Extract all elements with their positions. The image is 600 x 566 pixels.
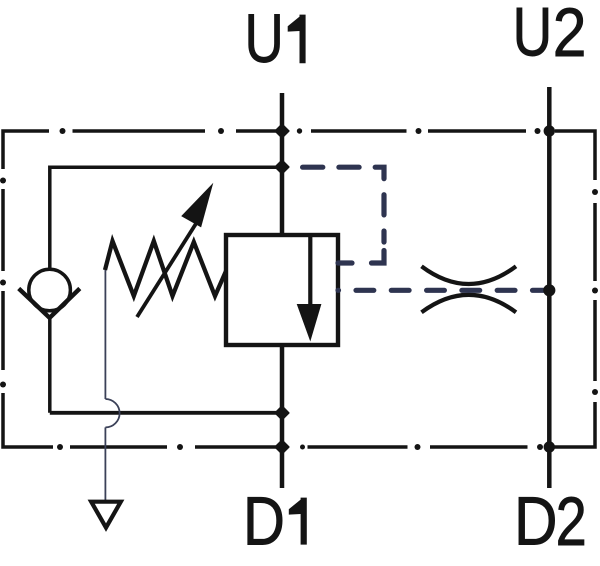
svg-text:D: D: [243, 482, 285, 560]
svg-text:2: 2: [553, 0, 587, 71]
svg-text:D: D: [514, 481, 557, 559]
svg-text:U: U: [245, 1, 284, 78]
svg-text:2: 2: [556, 483, 587, 560]
svg-text:U: U: [513, 0, 553, 71]
